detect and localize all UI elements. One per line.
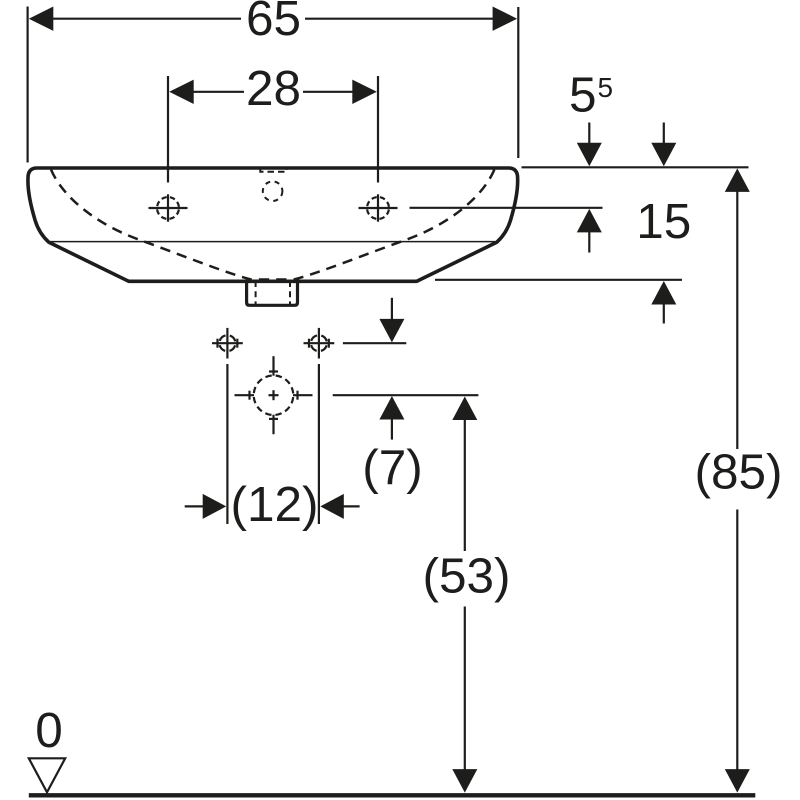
dimension 28 line: [192, 91, 244, 93]
floor line: [29, 793, 756, 797]
svg-text:(53): (53): [422, 549, 510, 604]
fixing bolt hole right: [304, 328, 335, 359]
dimension 65 extension line right: [517, 7, 519, 158]
svg-text:5: 5: [569, 68, 597, 123]
dimension 53 line: [464, 420, 466, 551]
svg-text:28: 28: [246, 61, 301, 116]
bolt hole level reference line: [343, 342, 406, 344]
dimension 85 line: [736, 191, 738, 449]
dimension 28 arrow left: [169, 80, 194, 104]
svg-text:0: 0: [35, 703, 63, 758]
drain outlet inner dashed lines: [255, 281, 257, 304]
svg-text:(7): (7): [362, 440, 423, 495]
overflow slot dashed: [260, 169, 286, 172]
datum triangle: [29, 758, 65, 792]
dimension 28 extension line right: [377, 76, 379, 183]
svg-text:65: 65: [246, 0, 301, 46]
svg-text:15: 15: [636, 194, 691, 249]
rim top reference line (right): [522, 166, 749, 168]
drain outlet rectangle: [247, 281, 298, 305]
basin front shelf line: [50, 241, 496, 243]
dimension 12 extension line right: [318, 364, 320, 524]
tap hole right: [359, 194, 398, 221]
dimension 65 line: [52, 18, 241, 20]
dimension 7 up arrow: [379, 396, 404, 420]
drain center level reference line: [333, 394, 479, 396]
svg-text:(85): (85): [694, 445, 782, 500]
dimension 15 down arrow: [663, 123, 665, 146]
dimension 85 down arrow: [725, 769, 750, 793]
dimension 85 up arrow: [725, 168, 750, 192]
dimension 53 up arrow: [452, 397, 477, 421]
dimension 7 down arrow: [391, 298, 393, 321]
dimension 15 up arrow: [651, 281, 676, 305]
dimension 12 extension line left: [226, 364, 228, 524]
fixing bolt hole left: [212, 328, 243, 359]
svg-text:5: 5: [598, 72, 614, 103]
dimension 12 right arrow: [320, 494, 344, 519]
dimension 5.5 down arrow: [588, 123, 590, 146]
drain trap center mark: [235, 356, 313, 434]
dimension 65 arrow right: [493, 7, 517, 31]
dimension 65 extension line left: [27, 7, 29, 163]
dimension 12 left arrow: [185, 505, 205, 507]
basin outer outline: [28, 168, 518, 281]
dimension 65 arrow left: [29, 7, 54, 31]
dimension 53 down arrow: [452, 769, 477, 793]
dimension 28 arrow right: [352, 80, 377, 104]
basin bottom reference line (right): [435, 279, 682, 281]
tap hole center reference line (right): [410, 207, 603, 209]
svg-text:(12): (12): [230, 477, 318, 532]
tap hole left: [149, 194, 188, 221]
dimension 28 extension line left: [167, 76, 169, 183]
overflow hole dashed circle: [263, 181, 283, 201]
dimension 5.5 up arrow: [577, 209, 602, 233]
basin inner bowl dashed rim: [51, 170, 494, 280]
